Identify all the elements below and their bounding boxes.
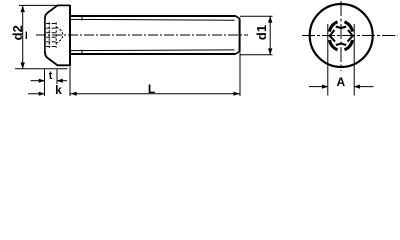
- recess cusp E: [348, 30, 353, 42]
- L arrow right: [233, 92, 239, 96]
- k extension line right (under bearing face): [69, 67, 71, 96]
- svg-text:t: t: [49, 70, 53, 82]
- recess comma arc NW: [330, 22, 338, 32]
- svg-text:d1: d1: [254, 25, 269, 40]
- socket rung 4: [46, 36, 56, 38]
- t dimension line with outside arrows: [31, 80, 45, 82]
- A dimension line with outside arrows: [309, 86, 328, 88]
- socket hidden line right wall: [55, 22, 57, 47]
- d2 arrow up: [21, 6, 25, 13]
- recess comma arc SE: [345, 40, 353, 50]
- tip chamfer bottom: [235, 51, 239, 54]
- d1 arrow down: [268, 48, 272, 55]
- bearing face: [69, 5, 71, 66]
- recess comma arc SW: [330, 40, 338, 50]
- shank major diameter bottom: [70, 53, 236, 55]
- thread minor line top: [71, 18, 235, 21]
- head outline (button head, side view): [45, 5, 70, 18]
- socket rung 1: [46, 23, 56, 25]
- thread minor line bottom: [71, 49, 235, 52]
- svg-text:L: L: [148, 82, 155, 96]
- d2 extension line bottom: [15, 68, 68, 70]
- L arrow left: [70, 92, 76, 96]
- L dimension line: [71, 93, 240, 95]
- A extension line right: [353, 24, 355, 96]
- d1 dimension line: [269, 16, 271, 54]
- end view horizontal centerline: [302, 35, 398, 37]
- head bottom arc: [45, 52, 70, 65]
- d1 extension line bottom: [240, 54, 273, 56]
- socket hidden line left wall: [48, 22, 50, 47]
- head apex flat: [44, 18, 46, 54]
- recess comma arc NE: [345, 22, 353, 32]
- L extension line at tip: [239, 53, 241, 97]
- thread runout tick bottom: [81, 50, 83, 55]
- svg-text:d2: d2: [10, 25, 25, 40]
- thread runout tick top: [81, 15, 83, 20]
- svg-text:A: A: [336, 75, 345, 89]
- d2 extension line top: [19, 4, 59, 6]
- A extension line left: [327, 24, 329, 96]
- tip chamfer top: [235, 16, 239, 19]
- k dimension line with outside arrow: [28, 93, 45, 95]
- socket bottom arc hidden: [56, 27, 63, 43]
- recess cusp W: [330, 30, 335, 42]
- socket rung 6: [46, 46, 56, 48]
- t extension line left: [44, 70, 46, 97]
- end view vertical centerline: [340, 1, 342, 71]
- tip end face: [239, 18, 241, 51]
- t extension line right: [56, 70, 58, 85]
- recess slot end chevron S: [336, 44, 346, 45]
- svg-text:k: k: [55, 83, 62, 97]
- d1 arrow up: [268, 16, 272, 23]
- socket rung 3: [46, 32, 56, 34]
- socket rung 5: [46, 41, 56, 43]
- socket rung 2: [46, 27, 56, 29]
- centerline of screw axis: [36, 34, 248, 36]
- d2 arrow down: [21, 62, 25, 69]
- recess slot end chevron N: [336, 27, 346, 28]
- end view outer circle: [310, 4, 373, 67]
- stray mark left of d2 line: [25, 32, 27, 40]
- shank major diameter top: [70, 15, 236, 17]
- d1 extension line top: [240, 15, 273, 17]
- d2 dimension line: [22, 5, 24, 68]
